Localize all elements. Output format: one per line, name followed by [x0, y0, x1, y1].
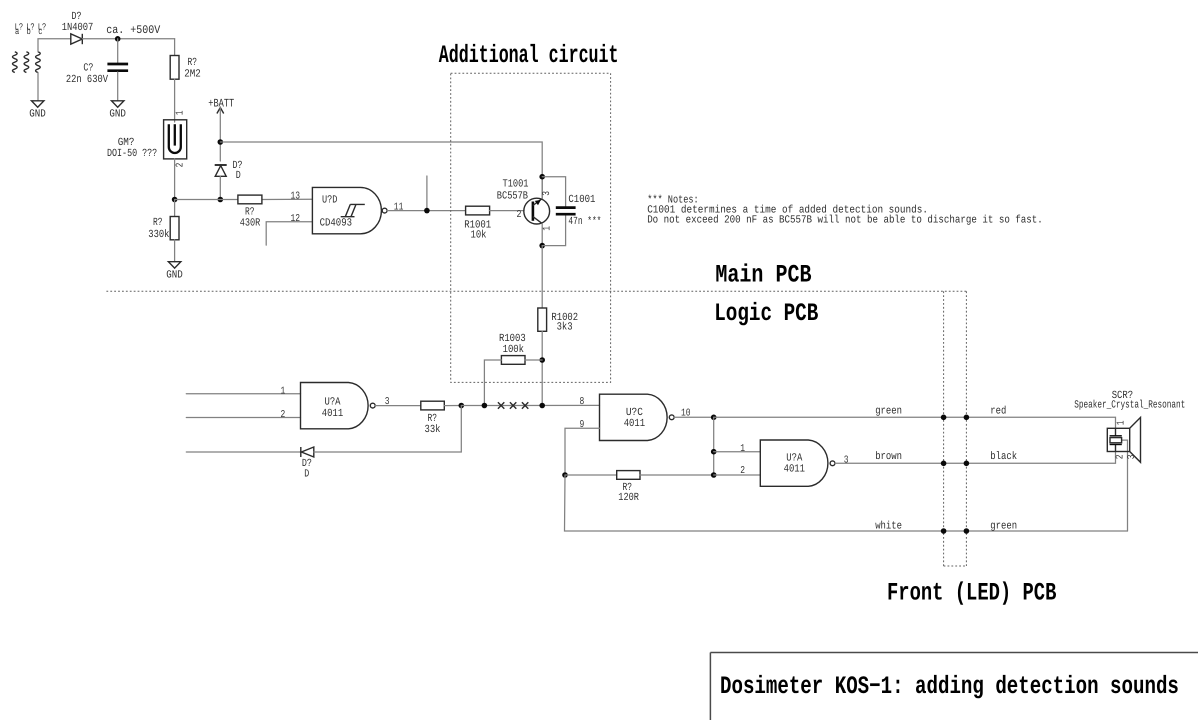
svg-text:brown: brown	[875, 451, 902, 463]
ground GND under C?	[112, 101, 124, 107]
wire L?c top to diode	[38, 39, 71, 52]
label L?b	[26, 21, 35, 37]
label C? 22n 630V	[66, 62, 108, 86]
wire +BATT down to node	[219, 108, 221, 162]
capacitor C1001 47n	[556, 208, 576, 215]
wire R33k to node	[444, 405, 461, 407]
diode D? D feedback	[301, 447, 314, 457]
svg-text:3: 3	[844, 454, 849, 466]
node black wire dashed crossings	[941, 461, 947, 467]
wire U?C pin 9	[565, 428, 600, 475]
svg-text:Dosimeter KOS−1: adding detect: Dosimeter KOS−1: adding detection sounds	[720, 672, 1179, 701]
svg-text:8: 8	[580, 396, 585, 408]
svg-text:ca. +500V: ca. +500V	[106, 24, 160, 37]
resistor R? 430R	[238, 195, 262, 204]
label U?A 4011 gate1	[322, 396, 344, 420]
resistor R? 33k	[421, 401, 445, 410]
label R? 330k	[148, 217, 169, 241]
wire node column vertical	[713, 417, 715, 475]
wire U?A pin 2 input	[186, 417, 300, 419]
svg-text:DOI-50 ???: DOI-50 ???	[107, 148, 157, 160]
svg-text:1: 1	[1116, 420, 1128, 425]
node tube bottom junction	[172, 197, 178, 203]
svg-text:2: 2	[517, 209, 522, 221]
svg-text:c: c	[38, 26, 42, 37]
wire collector down to R1002	[541, 246, 543, 308]
svg-text:2: 2	[1115, 454, 1127, 459]
wire gate pin 12 stub	[266, 222, 312, 245]
resistor R? 2M2	[170, 56, 179, 80]
svg-text:C?: C?	[83, 62, 93, 74]
svg-text:10k: 10k	[471, 230, 487, 242]
svg-text:GND: GND	[29, 109, 46, 121]
diode D? D (battery branch)	[215, 165, 227, 176]
ground GND under L?c	[32, 101, 44, 107]
inductor L?b	[24, 52, 29, 73]
svg-text:D: D	[236, 170, 241, 182]
node feedback junction	[459, 403, 465, 409]
node R1003 junction	[539, 357, 545, 363]
wire R1003 right to node	[525, 359, 542, 361]
svg-text:T1001: T1001	[503, 178, 529, 190]
label C1001 47n	[568, 194, 601, 228]
svg-text:120R: 120R	[618, 492, 639, 504]
label L?a	[15, 21, 24, 37]
node white wire dashed crossings	[941, 528, 947, 534]
label D? 1N4007	[62, 11, 94, 34]
svg-text:Logic PCB: Logic PCB	[714, 299, 818, 328]
ground GND under R330k	[168, 262, 180, 268]
node gate2 pin1 junction	[711, 449, 717, 455]
svg-text:1N4007: 1N4007	[62, 22, 94, 34]
svg-text:4011: 4011	[784, 464, 806, 476]
wire feedback diode row	[186, 451, 300, 453]
wire R1003 left leg	[484, 360, 501, 406]
svg-text:red: red	[990, 405, 1006, 417]
label D? D battery diode	[233, 160, 243, 182]
resistor R1002 3k3	[538, 308, 547, 331]
svg-text:GND: GND	[166, 269, 183, 281]
wire diode to +500V node	[82, 38, 174, 40]
svg-text:3: 3	[1126, 454, 1138, 459]
node output 10 junction	[711, 415, 717, 421]
geiger tube GM? DOI-50	[164, 120, 187, 159]
svg-text:3: 3	[541, 191, 553, 196]
wire R330k to ground	[174, 240, 176, 262]
wire diode to node	[219, 176, 221, 199]
svg-text:1: 1	[281, 385, 286, 397]
label R? 33k	[425, 413, 441, 436]
wire white bottom run	[565, 475, 1128, 531]
wire mid bus to U?C pin 8	[461, 404, 599, 406]
op-amp U?A 4011 nand gate	[301, 383, 376, 429]
wire diode to node	[314, 406, 462, 453]
resistor R? 120R	[617, 471, 640, 480]
wire U?C output pin 10	[674, 416, 714, 418]
inductor L?c	[36, 52, 41, 73]
wire U?A pin 1 input	[186, 393, 300, 395]
svg-text:BC557B: BC557B	[497, 190, 529, 202]
wire C? to ground	[117, 72, 119, 101]
node R1002 bottom junction	[539, 403, 545, 409]
label U?A 4011 gate2	[784, 453, 806, 476]
svg-text:1: 1	[174, 110, 186, 115]
svg-text:1: 1	[740, 443, 745, 455]
svg-text:3k3: 3k3	[557, 321, 573, 333]
label R1001 10k	[464, 220, 491, 242]
title block frame	[710, 653, 1198, 720]
notes text	[647, 195, 1043, 227]
svg-text:10: 10	[681, 408, 691, 420]
svg-text:2M2: 2M2	[184, 69, 201, 81]
wire brown/black run to speaker pin 2	[835, 452, 1116, 464]
svg-text:D: D	[304, 469, 309, 481]
node pin9 bottom junction	[562, 472, 568, 478]
svg-text:330k: 330k	[148, 229, 169, 241]
wire R1001 to transistor base	[490, 210, 524, 212]
label R? 2M2	[184, 57, 201, 81]
svg-text:C1001: C1001	[568, 194, 595, 206]
capacitor C? 22n 630V	[107, 64, 128, 71]
label L?c	[38, 21, 47, 37]
svg-text:13: 13	[291, 190, 301, 202]
svg-text:b: b	[27, 26, 31, 37]
svg-text:47n ***: 47n ***	[568, 216, 601, 228]
resistor R? 330k	[170, 217, 179, 240]
main/logic PCB dashed divider	[106, 290, 966, 292]
svg-text:22n 630V: 22n 630V	[66, 74, 108, 86]
node pin 11 junction	[424, 208, 430, 214]
wire R2M2 to tube	[174, 79, 176, 122]
label GM? DOI-50	[107, 137, 157, 160]
node gate2 pin2 junction	[711, 472, 717, 478]
inductor L?a	[13, 52, 18, 73]
svg-text:GM?: GM?	[118, 137, 135, 149]
svg-text:white: white	[875, 520, 902, 532]
svg-text:Do not exceed 200 nF as BC557B: Do not exceed 200 nF as BC557B will not …	[647, 214, 1043, 226]
node ca. +500V junction	[115, 36, 121, 42]
label T1001 BC557B	[497, 178, 529, 202]
svg-text:Additional circuit: Additional circuit	[439, 41, 619, 70]
node R1003 left junction	[482, 403, 488, 409]
svg-text:100k: 100k	[503, 344, 524, 356]
wire stub above node 11	[426, 176, 428, 211]
svg-text:1: 1	[542, 226, 554, 231]
node +BATT junction	[218, 139, 224, 145]
svg-text:4011: 4011	[322, 408, 344, 420]
label D? D feedback	[302, 458, 312, 481]
svg-text:GND: GND	[109, 109, 126, 121]
wire +BATT node to additional circuit	[220, 142, 542, 199]
svg-text:33k: 33k	[425, 424, 441, 436]
node collector junction	[539, 243, 545, 249]
label R? 430R	[240, 207, 261, 230]
wire node to R? 330k	[174, 200, 176, 217]
wire L?c bottom to ground	[37, 73, 39, 101]
svg-text:11: 11	[394, 201, 404, 213]
wire U?A output pin 3	[375, 405, 421, 407]
front PCB dashed column	[944, 291, 967, 566]
svg-text:4011: 4011	[624, 418, 646, 430]
label R? 120R	[618, 482, 639, 504]
node emitter junction	[539, 174, 545, 180]
resistor R1003 100k	[501, 356, 525, 365]
wire U?D output pin 11	[387, 210, 466, 212]
wire tube to node	[174, 159, 176, 200]
svg-text:2: 2	[174, 163, 186, 168]
svg-text:Main PCB: Main PCB	[715, 260, 811, 289]
svg-text:12: 12	[291, 213, 301, 225]
label SCR? speaker	[1074, 390, 1185, 412]
svg-text:2: 2	[281, 409, 286, 421]
svg-text:R?: R?	[188, 57, 198, 69]
label U?D CD4093	[320, 195, 352, 230]
node horizontal wire junction	[218, 197, 224, 203]
wire to R120R	[565, 474, 617, 476]
svg-text:green: green	[990, 520, 1017, 532]
label U?C 4011	[624, 407, 646, 430]
wire gate2 pin 1	[714, 451, 761, 453]
wire green/red run to speaker pin 1	[714, 417, 1116, 428]
speaker SCR? Speaker_Crystal_Resonant	[1107, 417, 1140, 462]
wire green run up to speaker pin 3	[1122, 440, 1128, 531]
power symbol +BATT	[217, 108, 224, 114]
svg-text:U?A: U?A	[325, 396, 341, 408]
svg-text:430R: 430R	[240, 218, 261, 230]
svg-text:U?D: U?D	[322, 195, 337, 207]
op-amp U?A 4011 nand gate second	[760, 440, 835, 486]
svg-text:CD4093: CD4093	[320, 217, 352, 229]
wire +500V to R? 2M2	[174, 39, 176, 56]
wire R1002 to node	[541, 331, 543, 405]
wire C1001 branch	[542, 177, 565, 207]
wire gate2 pin 2	[714, 474, 761, 476]
op-amp U?C 4011 nand gate	[600, 394, 675, 440]
svg-text:Front (LED) PCB: Front (LED) PCB	[887, 579, 1056, 608]
diode D? 1N4007	[71, 34, 83, 44]
junction x marks	[498, 402, 528, 408]
svg-text:Speaker_Crystal_Resonant: Speaker_Crystal_Resonant	[1074, 400, 1185, 412]
label R1002 3k3	[551, 312, 578, 334]
additional circuit dashed box	[451, 73, 611, 382]
svg-text:2: 2	[740, 465, 745, 477]
svg-text:+BATT: +BATT	[208, 97, 234, 110]
resistor R1001 10k	[466, 206, 490, 215]
svg-text:a: a	[15, 26, 20, 37]
svg-text:3: 3	[385, 396, 390, 408]
svg-text:black: black	[990, 451, 1017, 463]
wire node to capacitor C?	[117, 39, 119, 63]
svg-text:9: 9	[580, 419, 585, 431]
node red wire dashed crossings	[941, 415, 947, 421]
svg-text:R?: R?	[153, 217, 163, 229]
transistor T1001 BC557B	[524, 177, 550, 246]
wire node row to R430R and gate pin 13	[175, 199, 238, 201]
wire R120R to node column	[640, 474, 714, 476]
label R1003 100k	[499, 333, 526, 356]
op-amp U?D CD4093 nand gate	[312, 187, 387, 233]
svg-text:green: green	[875, 405, 902, 417]
